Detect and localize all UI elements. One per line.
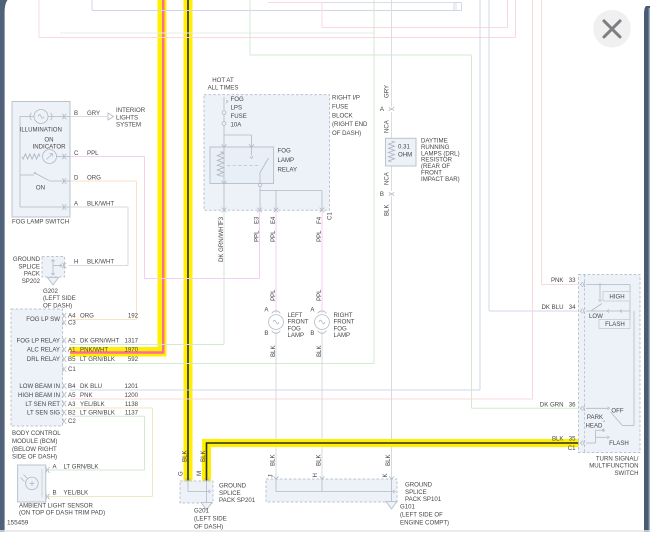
SP202 pin H <box>62 263 66 268</box>
svg-text:K: K <box>382 473 389 477</box>
svg-text:RIGHT I/P: RIGHT I/P <box>332 95 360 102</box>
MF flash contact <box>595 430 597 443</box>
svg-text:B: B <box>53 490 57 497</box>
svg-text:BODY CONTROL: BODY CONTROL <box>12 430 61 437</box>
wire highlight: PNK/WHT 1970 horizontal band <box>70 347 167 357</box>
wire: DK BLU 1201 B4 <box>70 389 480 391</box>
svg-text:ENGINE COMPT): ENGINE COMPT) <box>400 519 449 526</box>
svg-text:BLOCK: BLOCK <box>332 112 353 119</box>
svg-text:NCA: NCA <box>383 171 390 185</box>
svg-text:B: B <box>380 191 384 198</box>
svg-text:OF DASH): OF DASH) <box>194 523 223 530</box>
svg-text:B: B <box>310 330 314 337</box>
svg-text:B5: B5 <box>68 356 76 363</box>
svg-text:C1: C1 <box>327 212 334 220</box>
svg-text:35: 35 <box>569 436 576 443</box>
svg-text:BLK: BLK <box>182 450 189 462</box>
sensor pins <box>45 467 49 472</box>
fog lamp switch pins <box>62 114 66 119</box>
wire core: BLK to G201 pin G <box>187 0 189 481</box>
wire: BLK right fog lamp to G101 H <box>321 332 323 480</box>
svg-text:LOW BEAM IN: LOW BEAM IN <box>19 383 60 390</box>
svg-text:FUSE: FUSE <box>332 104 348 111</box>
left page edge bar <box>0 0 8 532</box>
svg-text:(LEFT SIDE OF: (LEFT SIDE OF <box>400 512 443 519</box>
svg-text:DK BLU: DK BLU <box>80 383 102 390</box>
body control module box <box>11 309 63 426</box>
svg-text:IMPACT BAR): IMPACT BAR) <box>421 176 460 183</box>
fog lamp switch internal bus wire <box>19 117 21 208</box>
svg-text:1201: 1201 <box>124 383 138 390</box>
svg-text:192: 192 <box>128 313 139 320</box>
wire: PPL pin C to E3 <box>70 156 145 158</box>
SP202 internal arrows <box>52 260 54 276</box>
svg-text:FLASH: FLASH <box>609 440 629 447</box>
svg-text:BLK: BLK <box>316 454 323 466</box>
svg-text:GRY: GRY <box>87 110 100 117</box>
relay switch <box>251 147 253 156</box>
svg-text:YEL/BLK: YEL/BLK <box>80 401 105 408</box>
svg-text:33: 33 <box>569 277 576 284</box>
svg-text:LT SEN SIG: LT SEN SIG <box>27 410 60 417</box>
svg-text:ALC RELAY: ALC RELAY <box>27 347 60 354</box>
svg-text:LT SEN RET: LT SEN RET <box>25 401 60 408</box>
DRL resistor connector A <box>389 107 394 111</box>
wire: PPL E4 to left fog lamp <box>275 210 277 313</box>
svg-text:FOG LP RELAY: FOG LP RELAY <box>17 338 60 345</box>
svg-text:BLK: BLK <box>270 345 277 357</box>
bottom separator <box>0 530 650 532</box>
SP101 internal bus <box>275 479 277 492</box>
relay to connector pins <box>223 184 225 211</box>
svg-text:TURN SIGNAL/: TURN SIGNAL/ <box>596 455 639 462</box>
ground splice pack SP202 box <box>42 257 65 278</box>
ground G101 <box>386 502 397 510</box>
wire core: PNK/WHT 1970 <box>70 0 163 353</box>
svg-text:ON: ON <box>44 137 53 144</box>
wire: BLK DRL resistor to G101 K <box>391 196 393 479</box>
svg-text:BLK: BLK <box>270 454 277 466</box>
svg-text:A3: A3 <box>68 401 76 408</box>
interior lights system marker <box>108 113 114 120</box>
svg-text:1200: 1200 <box>124 392 138 399</box>
wire highlight: BLK vertical band to G201 pin M <box>202 439 211 481</box>
svg-text:D: D <box>74 175 79 182</box>
ground splice pack SP201 box <box>180 481 213 503</box>
svg-text:(LEFT SIDE: (LEFT SIDE <box>43 295 76 302</box>
wire: PPL F4 to right fog lamp <box>321 210 323 313</box>
SP201 pins G M <box>186 478 191 481</box>
svg-text:DRL RELAY: DRL RELAY <box>27 356 60 363</box>
svg-text:OHM: OHM <box>398 152 412 159</box>
wire: DK GRN/WHT 1317 A2 to relay F3 <box>70 344 224 346</box>
DRL resistor box <box>386 138 417 166</box>
svg-text:E4: E4 <box>270 216 277 224</box>
wire: BLK left fog lamp to G101 J <box>275 332 277 480</box>
sensor photocell <box>26 477 39 490</box>
DRL resistor element <box>389 141 395 162</box>
svg-text:C1: C1 <box>68 366 76 373</box>
svg-text:GROUND: GROUND <box>219 483 247 490</box>
ground G202 <box>48 278 59 286</box>
svg-text:SP202: SP202 <box>22 278 41 285</box>
wire: top pink bus outer <box>38 0 40 38</box>
svg-text:INDICATOR: INDICATOR <box>33 144 67 151</box>
svg-text:DK BLU: DK BLU <box>541 304 563 311</box>
svg-text:10A: 10A <box>231 122 243 129</box>
svg-text:PACK SP201: PACK SP201 <box>219 497 256 504</box>
svg-text:SPLICE: SPLICE <box>405 489 427 496</box>
svg-text:B4: B4 <box>68 383 76 390</box>
wire: GRY pin B to interior lights <box>70 116 107 118</box>
close button <box>593 10 631 48</box>
svg-text:FOG: FOG <box>231 96 244 103</box>
svg-text:G: G <box>178 471 185 476</box>
svg-text:PPL: PPL <box>87 150 99 157</box>
svg-text:FOG: FOG <box>278 148 291 155</box>
wire: ORG pin D to BCM A4 <box>70 180 137 182</box>
svg-text:HOT AT: HOT AT <box>212 77 234 84</box>
wire fuse to relay <box>223 125 225 147</box>
svg-text:H: H <box>312 473 319 477</box>
svg-text:BLK: BLK <box>383 204 390 216</box>
right page edge bar <box>644 6 650 532</box>
svg-text:PPL: PPL <box>270 230 277 242</box>
svg-text:E3: E3 <box>253 216 260 224</box>
wire highlight: BLK vertical band to G201 pin G <box>184 0 193 481</box>
wire: YEL/BLK 1138 A3 to ambient sensor B <box>70 407 153 409</box>
svg-text:MODULE (BCM): MODULE (BCM) <box>12 438 57 445</box>
SP201 internal bus <box>187 481 189 492</box>
svg-text:FOG LP SW: FOG LP SW <box>26 316 60 323</box>
svg-text:AMBIENT LIGHT SENSOR: AMBIENT LIGHT SENSOR <box>19 502 94 509</box>
svg-text:SPLICE: SPLICE <box>219 490 241 497</box>
wire core: BLK pin35 to G201 pin M <box>207 443 581 481</box>
HIGH box <box>603 292 630 302</box>
ground G201 <box>201 503 212 511</box>
svg-text:ON: ON <box>36 185 45 192</box>
svg-text:34: 34 <box>569 304 576 311</box>
fuse block pins F3 E3 E4 F4 <box>222 208 227 213</box>
relay actuator dashed <box>227 165 258 167</box>
svg-text:BLK: BLK <box>385 454 392 466</box>
wire: HIGH BEAM PNK (A5) vertical <box>532 0 534 399</box>
svg-text:SIDE OF DASH): SIDE OF DASH) <box>12 454 57 461</box>
svg-text:C3: C3 <box>68 320 76 327</box>
svg-text:PNK: PNK <box>80 392 93 399</box>
svg-text:155459: 155459 <box>7 519 29 526</box>
svg-text:592: 592 <box>128 356 139 363</box>
svg-text:(ON TOP OF DASH TRIM PAD): (ON TOP OF DASH TRIM PAD) <box>19 510 105 517</box>
svg-text:BLK: BLK <box>200 450 207 462</box>
svg-text:RELAY: RELAY <box>278 167 298 174</box>
svg-text:BLK: BLK <box>316 345 323 357</box>
wire: DRL relay LT GRN/BLK (B5) vertical <box>373 0 375 364</box>
svg-text:LAMP: LAMP <box>288 332 305 339</box>
svg-text:FUSE: FUSE <box>231 113 247 120</box>
relay pins <box>222 144 227 147</box>
svg-text:PARK: PARK <box>587 414 603 421</box>
svg-text:PNK/WHT: PNK/WHT <box>80 347 108 354</box>
svg-text:B: B <box>74 110 78 117</box>
svg-text:PPL: PPL <box>316 289 323 301</box>
DRL resistor connector B <box>389 192 394 196</box>
fog lamp relay box <box>210 147 274 184</box>
svg-text:GRY: GRY <box>383 85 390 98</box>
svg-text:0.31: 0.31 <box>398 144 410 151</box>
svg-text:HEAD: HEAD <box>586 423 604 430</box>
ON indicator LED <box>43 150 57 164</box>
svg-text:ILLUMINATION: ILLUMINATION <box>20 127 62 134</box>
svg-text:C2: C2 <box>68 418 76 425</box>
svg-text:PNK: PNK <box>551 277 564 284</box>
svg-text:FLASH: FLASH <box>605 321 625 328</box>
relay coil <box>223 147 225 152</box>
svg-text:G101: G101 <box>400 504 416 511</box>
wire: LT GRN/BLK 1137 B2 to ambient sensor A <box>70 415 145 417</box>
svg-text:MULTIFUNCTION: MULTIFUNCTION <box>589 463 638 470</box>
svg-text:DK GRN/WHT: DK GRN/WHT <box>80 338 120 345</box>
wire: faint green-gray bus y33 <box>60 32 374 34</box>
svg-text:SYSTEM: SYSTEM <box>116 122 141 129</box>
svg-text:LOW: LOW <box>589 313 603 320</box>
svg-text:LPS: LPS <box>231 105 243 112</box>
svg-text:ALL TIMES: ALL TIMES <box>208 85 239 92</box>
MF dimmer internals <box>586 284 630 286</box>
svg-text:36: 36 <box>569 402 576 409</box>
MF inner dashed line <box>584 275 586 453</box>
LOW line and blade <box>586 310 630 312</box>
wire: DRL resistor A-B leads <box>391 112 393 140</box>
svg-text:(LEFT SIDE: (LEFT SIDE <box>194 516 227 523</box>
svg-text:DK GRN/WHT: DK GRN/WHT <box>218 222 225 262</box>
BCM pins <box>62 313 66 318</box>
svg-text:LAMP: LAMP <box>278 157 295 164</box>
wire: LOW BEAM DK BLU (B4) vertical <box>479 0 481 390</box>
svg-text:OF DASH): OF DASH) <box>332 130 361 137</box>
svg-text:LT GRN/BLK: LT GRN/BLK <box>80 356 115 363</box>
svg-text:NCA: NCA <box>383 119 390 133</box>
wire: PNK 1200 A5 <box>70 398 533 400</box>
left front fog lamp <box>272 311 281 314</box>
illumination lamp <box>34 110 48 124</box>
right front fog lamp <box>318 311 327 314</box>
svg-text:BLK/WHT: BLK/WHT <box>87 201 114 208</box>
svg-text:LAMP: LAMP <box>334 332 351 339</box>
svg-text:HIGH: HIGH <box>609 293 624 300</box>
svg-text:LT GRN/BLK: LT GRN/BLK <box>64 463 99 470</box>
svg-text:G201: G201 <box>194 508 210 515</box>
wire: GRY DRL resistor feed <box>391 0 393 107</box>
svg-text:B2: B2 <box>68 410 76 417</box>
fuse FOG LPS 10A <box>222 111 226 115</box>
ambient light sensor box <box>18 465 46 502</box>
svg-text:SWITCH: SWITCH <box>614 470 638 477</box>
svg-text:A5: A5 <box>68 392 76 399</box>
svg-text:H: H <box>74 259 78 266</box>
resistor in switch <box>22 154 40 159</box>
fuse feed wire <box>223 97 225 110</box>
svg-text:PPL: PPL <box>270 289 277 301</box>
wire: DK BLU (pin34) vertical <box>488 0 490 311</box>
svg-text:M: M <box>196 471 203 476</box>
svg-text:A1: A1 <box>68 347 76 354</box>
wire: DK GRN (pin36) bus <box>249 0 251 55</box>
wire: top pink bus inner <box>321 3 323 28</box>
svg-text:C1: C1 <box>568 445 576 452</box>
svg-text:BLK/WHT: BLK/WHT <box>87 259 114 266</box>
svg-text:PPL: PPL <box>316 230 323 242</box>
svg-text:INTERIOR: INTERIOR <box>116 107 146 114</box>
svg-text:F4: F4 <box>316 216 323 224</box>
svg-text:J: J <box>268 474 275 477</box>
svg-text:SPLICE: SPLICE <box>18 263 40 270</box>
svg-text:A2: A2 <box>68 338 76 345</box>
svg-text:FOG LAMP SWITCH: FOG LAMP SWITCH <box>12 219 69 226</box>
MF pins <box>580 282 585 287</box>
svg-text:PACK: PACK <box>24 271 40 278</box>
svg-text:YEL/BLK: YEL/BLK <box>64 490 89 497</box>
svg-text:ORG: ORG <box>87 175 101 182</box>
wire highlight: BLK horizontal band to MF switch pin 35 <box>202 439 581 447</box>
wire: LT GRN/BLK 592 B5 <box>70 363 374 365</box>
svg-text:GROUND: GROUND <box>13 256 41 263</box>
svg-text:LIGHTS: LIGHTS <box>116 114 138 121</box>
svg-text:HIGH BEAM IN: HIGH BEAM IN <box>18 392 60 399</box>
wire: top gray bus <box>268 2 456 4</box>
turn signal multifunction switch box <box>579 275 641 453</box>
svg-text:1970: 1970 <box>124 347 138 354</box>
svg-text:LT GRN/BLK: LT GRN/BLK <box>80 410 115 417</box>
MF headlamp switch internals <box>586 407 608 409</box>
svg-text:ORG: ORG <box>80 313 94 320</box>
right IP fuse block box <box>204 95 330 211</box>
svg-text:OFF: OFF <box>611 408 623 415</box>
wire: BLK/WHT pin A to SP202 H <box>70 206 128 208</box>
svg-text:(RIGHT END: (RIGHT END <box>332 121 368 128</box>
svg-text:A4: A4 <box>68 313 76 320</box>
svg-text:PPL: PPL <box>253 230 260 242</box>
svg-text:DK GRN: DK GRN <box>540 402 564 409</box>
FLASH box upper <box>599 320 630 329</box>
ground splice pack SP101 box <box>266 479 397 502</box>
SP101 pins J H K <box>274 476 279 479</box>
svg-text:GROUND: GROUND <box>405 482 433 489</box>
svg-text:B: B <box>264 330 268 337</box>
svg-text:BLK: BLK <box>552 436 564 443</box>
svg-text:C: C <box>74 150 79 157</box>
svg-text:PACK SP101: PACK SP101 <box>405 496 442 503</box>
wire: top blue bus <box>91 0 93 11</box>
switch blade <box>34 172 36 174</box>
svg-text:1137: 1137 <box>125 410 139 417</box>
svg-text:G202: G202 <box>43 288 59 295</box>
fog lamp switch box <box>12 102 70 218</box>
wire: PNK (pin33) vertical <box>541 0 543 285</box>
wire highlight: PNK/WHT 1970 vertical band <box>158 0 167 357</box>
svg-text:1317: 1317 <box>124 338 138 345</box>
svg-text:1138: 1138 <box>125 401 139 408</box>
svg-text:(BELOW RIGHT: (BELOW RIGHT <box>12 446 57 453</box>
